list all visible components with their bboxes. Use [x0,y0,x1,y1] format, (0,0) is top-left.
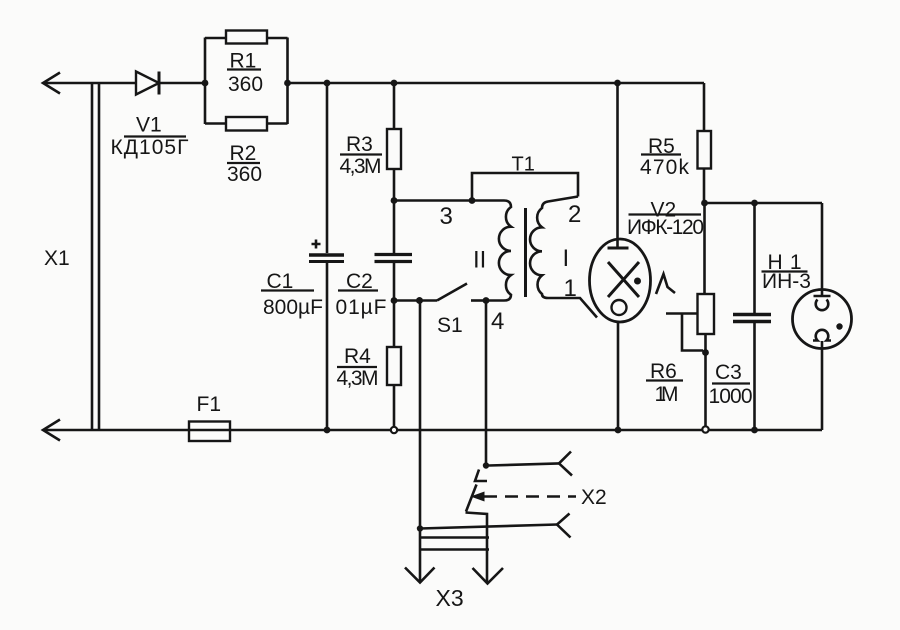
svg-text:II: II [473,247,486,274]
svg-text:X1: X1 [44,247,70,270]
svg-text:2: 2 [568,201,581,228]
svg-text:R3: R3 [346,133,373,156]
svg-text:360: 360 [227,163,262,186]
svg-text:ИН-3: ИН-3 [762,270,811,293]
svg-text:360: 360 [228,73,263,96]
resistor R1 [226,31,267,44]
diode V1 [111,72,189,160]
trimmer R6 [646,203,714,433]
connector X2 [417,452,607,583]
fuse F1 [189,393,230,441]
switch S1 [394,284,489,338]
svg-text:4: 4 [491,308,504,335]
svg-text:1: 1 [564,275,577,302]
svg-text:S1: S1 [437,314,463,337]
svg-text:X2: X2 [581,486,607,509]
pulse symbol [656,274,675,294]
wire bottom main [43,429,822,432]
svg-text:V1: V1 [136,114,162,137]
flash lamp V2 [590,80,705,434]
svg-text:X3: X3 [436,585,464,611]
resistor R2 [226,117,267,131]
svg-text:R4: R4 [344,345,371,368]
connector X3 [405,297,503,611]
latch [475,470,487,482]
wire pin3 [394,199,472,202]
resistor R3 [340,80,402,201]
transformer T1 [394,154,597,336]
dashed actuation arrow [471,492,485,502]
pin bottom [420,525,557,529]
winding II [472,201,511,301]
core [524,208,527,297]
resistor R1 / R2 parallel loop [202,31,291,187]
svg-text:4,3М: 4,3М [340,155,382,178]
svg-text:R2: R2 [230,142,257,165]
svg-text:3: 3 [440,203,453,230]
node right [284,80,291,87]
capacitor C2 [336,197,413,319]
svg-text:I: I [563,245,570,272]
wire pin4 down [485,301,488,466]
bracket [472,173,578,201]
svg-text:C3: C3 [715,361,742,384]
resistor R5 [640,83,711,203]
svg-text:470k: 470k [640,156,690,179]
svg-text:01µF: 01µF [336,296,387,319]
node left [202,80,209,87]
svg-text:4,3М: 4,3М [337,367,379,390]
capacitor C1 [261,80,344,434]
svg-text:1000: 1000 [709,385,753,408]
svg-text:1М: 1М [655,383,679,406]
resistor R4 [337,297,402,433]
capacitor C3 [709,203,772,433]
connector X1 [43,73,99,441]
svg-text:F1: F1 [197,393,222,416]
svg-text:КД105Г: КД105Г [111,136,189,159]
pin top [489,463,559,465]
winding I [530,197,597,318]
svg-text:ИФК-120: ИФК-120 [627,216,704,239]
neon lamp H1 [762,203,852,430]
node wire under R5 [704,202,822,205]
svg-text:800µF: 800µF [263,296,323,319]
wire top main [43,82,136,85]
